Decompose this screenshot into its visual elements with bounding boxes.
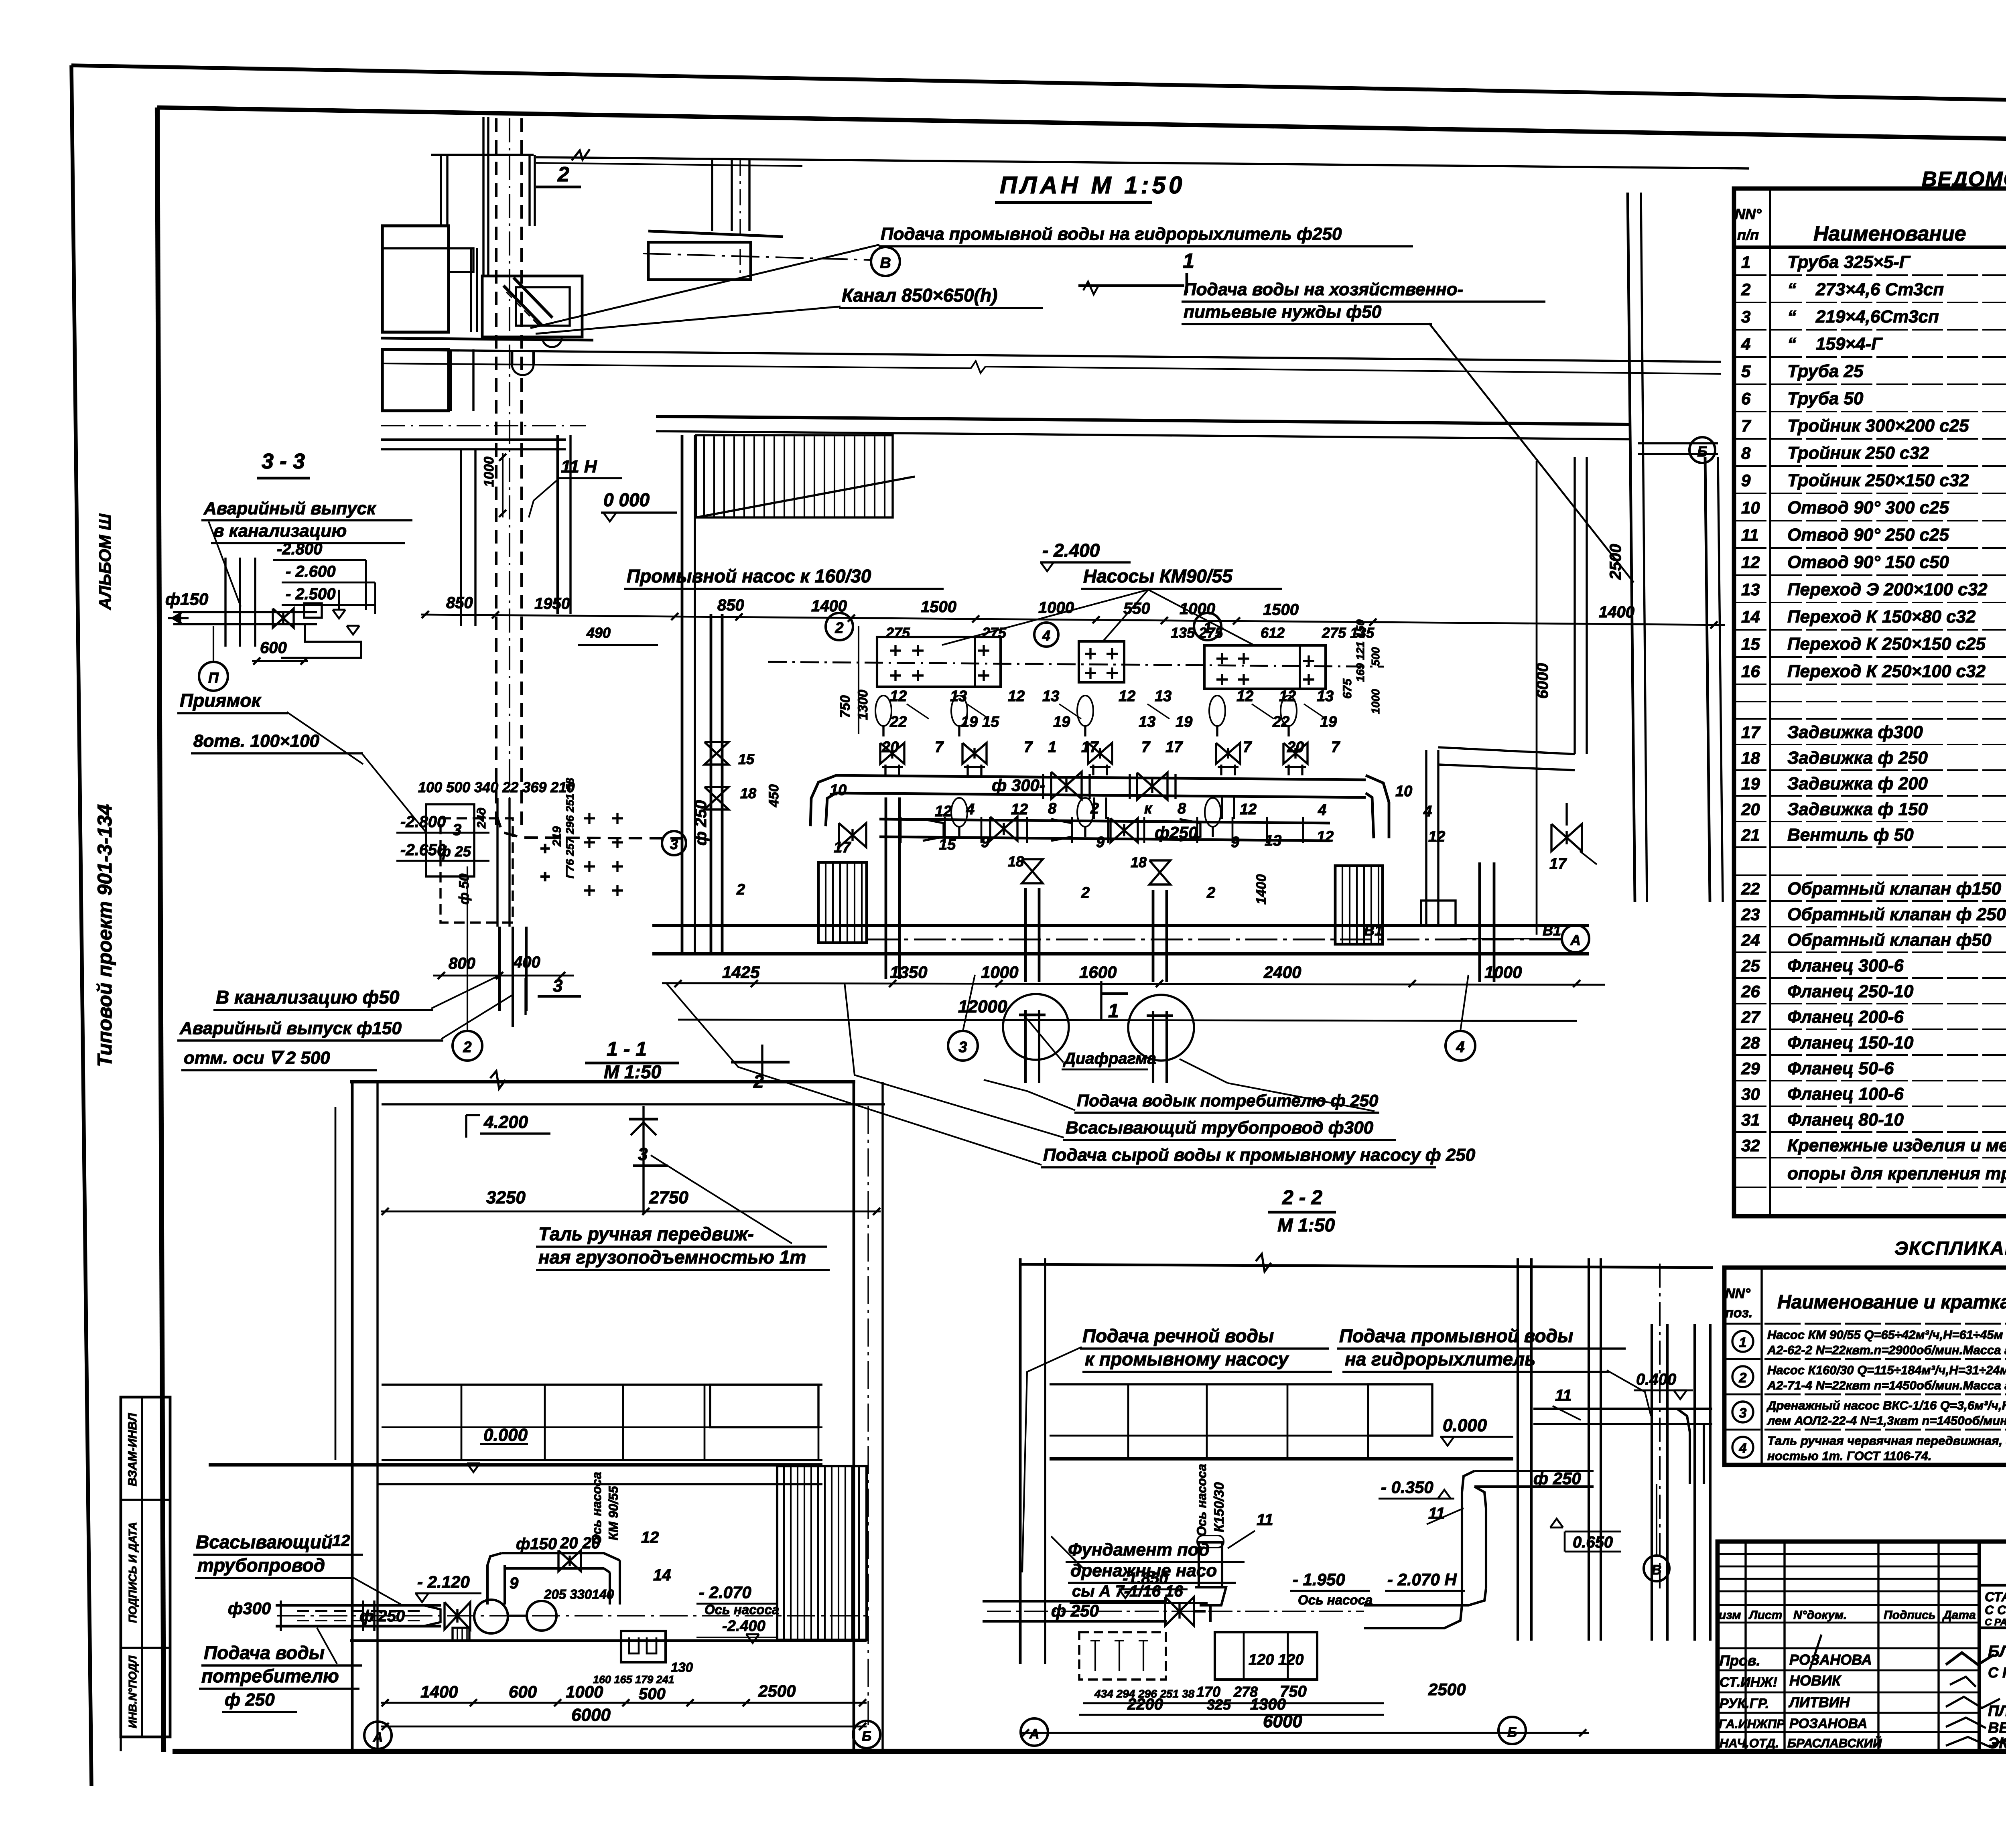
grid circle Б sec11 [853, 1721, 880, 1748]
leader промывной sec22 [1607, 1370, 1651, 1416]
svg-text:АЛЬБОМ Ш: АЛЬБОМ Ш [95, 513, 114, 610]
svg-text:Фланец 150-10: Фланец 150-10 [1787, 1033, 1914, 1053]
grid circle А plan [1562, 925, 1589, 952]
svg-text:1 - 1: 1 - 1 [607, 1038, 647, 1060]
svg-text:п/п: п/п [1737, 227, 1759, 243]
svg-text:Наименование и краткая характе: Наименование и краткая характеристика [1777, 1292, 2006, 1313]
check valves lower pipe [951, 798, 967, 827]
svg-text:ф 50: ф 50 [457, 874, 472, 905]
svg-text:1: 1 [1048, 739, 1056, 756]
svg-text:1000: 1000 [1484, 963, 1522, 982]
svg-text:12000: 12000 [958, 997, 1007, 1016]
svg-text:9: 9 [1231, 834, 1239, 851]
svg-text:Таль ручная передвиж-: Таль ручная передвиж- [538, 1223, 754, 1244]
gate valve on header 2 [1137, 773, 1167, 800]
axis dash-dot left lower [381, 425, 586, 426]
leader wires pump labels [942, 590, 1148, 645]
svg-text:100 500 340 22 369 210: 100 500 340 22 369 210 [418, 779, 575, 795]
svg-text:6000: 6000 [571, 1705, 611, 1725]
svg-text:2: 2 [1741, 280, 1750, 299]
svg-text:19: 19 [961, 714, 978, 730]
svg-text:12: 12 [1011, 801, 1028, 818]
wall: vertical stub v1 [440, 155, 442, 226]
svg-text:2: 2 [1206, 884, 1215, 901]
svg-text:К150/30: К150/30 [1212, 1482, 1227, 1532]
svg-text:Переход К 150×80 с32: Переход К 150×80 с32 [1787, 607, 1976, 627]
wire: left suction pipe vertical [885, 797, 887, 979]
svg-text:отм. оси ∇ 2 500: отм. оси ∇ 2 500 [184, 1048, 330, 1068]
svg-text:Подача речной воды: Подача речной воды [1082, 1325, 1274, 1346]
svg-text:3: 3 [670, 836, 678, 852]
wall: vertical stub v2 [482, 117, 484, 277]
svg-text:Подача водык потребителю ф 250: Подача водык потребителю ф 250 [1077, 1091, 1378, 1110]
wall: top building wall left part [431, 154, 534, 156]
foundation block sec22 [1215, 1632, 1317, 1680]
svg-text:Промывной насос к 160/30: Промывной насос к 160/30 [627, 566, 871, 586]
svg-text:Обратный клапан ф150: Обратный клапан ф150 [1787, 879, 2001, 899]
grid circle А sec22 [1021, 1718, 1048, 1746]
svg-text:Подача сырой воды к промывному: Подача сырой воды к промывному насосу ф … [1043, 1145, 1476, 1165]
wire: suction pipe 2 vertical [1024, 888, 1027, 982]
svg-text:С НАСОСНОЙ СТАНЦИЕЙ II ПОДЪЕМА: С НАСОСНОЙ СТАНЦИЕЙ II ПОДЪЕМА [1988, 1664, 2006, 1681]
svg-text:Аварийный выпуск ф150: Аварийный выпуск ф150 [179, 1018, 402, 1038]
svg-text:БЛОК СЛУЖЕБНЫХ ПОМЕЩЕНИЙ: БЛОК СЛУЖЕБНЫХ ПОМЕЩЕНИЙ [1988, 1641, 2006, 1660]
section 2-2 roof [1020, 1264, 1713, 1268]
leader фундамент [1051, 1536, 1083, 1568]
svg-text:Таль ручная червячная передвиж: Таль ручная червячная передвижная, грузо… [1767, 1434, 2006, 1448]
svg-text:1: 1 [1108, 1000, 1119, 1022]
grid circle Б sec22 [1498, 1717, 1526, 1744]
svg-text:Крепежные изделия и метизы: Крепежные изделия и метизы [1787, 1136, 2006, 1155]
outer sheet frame left edge [71, 65, 91, 1786]
wall: lower-left block [382, 349, 449, 411]
svg-text:11: 11 [1741, 525, 1759, 544]
svg-text:2: 2 [1081, 884, 1090, 901]
svg-text:Диафрагма: Диафрагма [1063, 1050, 1156, 1067]
left margin stamp strip [121, 1397, 170, 1751]
wall: right horizontal connector [1638, 442, 1718, 444]
svg-text:Канал 850×650(h): Канал 850×650(h) [842, 285, 997, 306]
svg-text:-2.400: -2.400 [722, 1618, 765, 1635]
wall: section 1-1 right wall [853, 1082, 855, 1751]
svg-text:1000: 1000 [1180, 600, 1215, 618]
svg-text:5: 5 [1741, 362, 1751, 381]
svg-text:потребителю: потребителю [201, 1665, 339, 1686]
svg-text:800: 800 [449, 955, 475, 972]
pump axis dash-dot sec11 [277, 1615, 867, 1616]
title block outer [1718, 1542, 2006, 1751]
svg-text:Труба 25: Труба 25 [1787, 361, 1864, 381]
svg-text:7: 7 [1741, 416, 1751, 435]
svg-text:275: 275 [982, 625, 1007, 641]
svg-text:Насос К160/30 Q=115÷184м³/ч,Н=: Насос К160/30 Q=115÷184м³/ч,Н=31÷24м с э… [1767, 1363, 2006, 1377]
pump axis dash sec22 [987, 1611, 1364, 1612]
svg-text:4.200: 4.200 [483, 1112, 528, 1132]
svg-text:8: 8 [1741, 444, 1751, 463]
svg-text:“ 273×4,6 Ст3сп: “ 273×4,6 Ст3сп [1787, 280, 1944, 299]
svg-text:29: 29 [1741, 1059, 1760, 1078]
leader wire аварийный [441, 995, 513, 1039]
wire: big elbow pipe ф250 sec22 [1474, 1470, 1594, 1472]
svg-text:275 135: 275 135 [1322, 625, 1375, 641]
svg-text:Пров.: Пров. [1720, 1652, 1760, 1669]
header left elbow down [810, 775, 836, 826]
svg-text:18: 18 [1008, 853, 1024, 870]
leader речной воды [1022, 1347, 1082, 1572]
svg-text:“ 159×4-Г: “ 159×4-Г [1787, 334, 1883, 354]
svg-text:13: 13 [1155, 688, 1172, 705]
materials table rows 17-21 [1741, 722, 2006, 845]
beam band section 1-1 [382, 1385, 822, 1460]
svg-text:NN°: NN° [1735, 206, 1762, 222]
gate valve symbols far ends [839, 823, 866, 847]
pipe U-stub under chamber [512, 364, 534, 375]
wire: pipe section 3-3 [173, 611, 317, 613]
svg-text:поз.: поз. [1725, 1305, 1752, 1321]
svg-text:11: 11 [1555, 1387, 1572, 1404]
gate valves row on risers [880, 743, 904, 764]
inner drawing frame top edge [157, 108, 2006, 146]
svg-text:13: 13 [1042, 688, 1059, 705]
svg-text:3: 3 [1739, 1406, 1747, 1421]
svg-text:Фланец 80-10: Фланец 80-10 [1787, 1110, 1904, 1130]
svg-text:11 Н: 11 Н [561, 457, 597, 477]
svg-text:0.000: 0.000 [483, 1425, 528, 1445]
svg-text:NN°: NN° [1725, 1286, 1750, 1301]
svg-text:ВЕДОМОСТЬ МАТЕРИАЛОВ.: ВЕДОМОСТЬ МАТЕРИАЛОВ. [1988, 1720, 2006, 1736]
svg-text:Обратный клапан ф 250: Обратный клапан ф 250 [1787, 905, 2006, 924]
svg-text:ф150: ф150 [516, 1535, 557, 1553]
leader всасывающий [351, 1576, 401, 1605]
svg-text:12: 12 [1240, 801, 1257, 818]
grid circle В [871, 247, 900, 276]
svg-text:3: 3 [553, 976, 562, 996]
svg-text:ЭКСПЛИКАЦИЯ ОБОРУДОВАНИЯ.: ЭКСПЛИКАЦИЯ ОБОРУДОВАНИЯ. [1988, 1735, 2006, 1752]
svg-text:1400: 1400 [811, 597, 847, 615]
wall: washing room wall stub [556, 435, 559, 614]
big gate valve left hatched [818, 862, 867, 943]
svg-text:9: 9 [1096, 834, 1105, 851]
svg-text:ПЛАН М 1:50: ПЛАН М 1:50 [1000, 172, 1185, 199]
svg-text:+: + [540, 867, 550, 886]
svg-text:питьевые нужды ф50: питьевые нужды ф50 [1184, 302, 1382, 322]
svg-text:СТ.ИНЖ!: СТ.ИНЖ! [1720, 1675, 1777, 1690]
svg-text:Фланец 100-6: Фланец 100-6 [1787, 1084, 1904, 1104]
svg-text:“ 219×4,6Ст3сп: “ 219×4,6Ст3сп [1787, 307, 1939, 327]
canal dashed line right [520, 118, 523, 826]
svg-text:ф 300-: ф 300- [992, 776, 1045, 795]
valve sec33 [273, 609, 294, 628]
svg-text:Приямок: Приямок [180, 690, 262, 711]
svg-text:0 000: 0 000 [603, 489, 650, 510]
inner drawing frame left edge [157, 108, 164, 1752]
gate valve on header 1 [1051, 772, 1082, 799]
svg-text:Б: Б [1507, 1725, 1517, 1740]
dim lines sec22 [1083, 1702, 1384, 1704]
svg-text:В1: В1 [1364, 922, 1383, 939]
svg-text:4: 4 [1042, 627, 1050, 644]
svg-text:2: 2 [834, 620, 843, 637]
svg-text:Тройник 250 с32: Тройник 250 с32 [1787, 443, 1929, 463]
svg-text:750: 750 [838, 695, 853, 718]
svg-text:к: к [1144, 800, 1153, 817]
svg-text:- 2.070 Н: - 2.070 Н [1387, 1570, 1457, 1589]
svg-text:1950: 1950 [534, 595, 570, 613]
svg-text:Задвижка ф 200: Задвижка ф 200 [1787, 774, 1928, 793]
discharge elbow down sec11 [604, 1553, 620, 1560]
leader wire from drinking water label [1429, 323, 1634, 582]
svg-text:Всасывающий: Всасывающий [196, 1532, 333, 1552]
leader wires from bottom labels [984, 1080, 1075, 1110]
axis circle П [199, 662, 228, 691]
dim chain top of hall [421, 594, 1725, 629]
canal dashed line left [495, 118, 497, 826]
svg-text:19: 19 [1176, 714, 1192, 730]
svg-text:Лист: Лист [1748, 1609, 1782, 1622]
svg-text:Фланец 200-6: Фланец 200-6 [1787, 1007, 1904, 1027]
svg-text:ПОДПИСЬ И ДАТА: ПОДПИСЬ И ДАТА [126, 1522, 139, 1623]
svg-text:8: 8 [1048, 800, 1057, 817]
svg-text:1000: 1000 [1038, 599, 1074, 617]
svg-text:Подача воды на хозяйственно-: Подача воды на хозяйственно- [1184, 280, 1463, 299]
svg-text:1: 1 [1183, 250, 1194, 273]
axis leader wires to grid circles [467, 866, 468, 1031]
svg-text:Г76 257 296 251 58: Г76 257 296 251 58 [564, 778, 576, 878]
svg-text:Б: Б [862, 1729, 871, 1744]
svg-text:РУК.ГР.: РУК.ГР. [1720, 1696, 1769, 1711]
floor slab sec11 [209, 1463, 822, 1467]
wall crossing pipe sec33 [224, 558, 226, 647]
title block left columns [1718, 1542, 1979, 1751]
svg-text:Труба 325×5-Г: Труба 325×5-Г [1787, 252, 1911, 272]
svg-text:12: 12 [1428, 828, 1445, 845]
svg-text:Подпись: Подпись [1884, 1609, 1936, 1622]
svg-text:А: А [373, 1730, 383, 1745]
wall: hall bottom wall band [652, 924, 1589, 927]
svg-text:0.000: 0.000 [1443, 1416, 1487, 1435]
drop arrows sec33 [333, 610, 345, 619]
svg-text:550: 550 [1123, 600, 1150, 617]
leader подача воды [317, 1628, 337, 1664]
svg-text:ИНВ.N°ПОДЛ: ИНВ.N°ПОДЛ [126, 1655, 139, 1728]
svg-text:9: 9 [510, 1574, 519, 1592]
svg-text:1000: 1000 [566, 1682, 603, 1701]
svg-text:Б: Б [1697, 443, 1708, 460]
svg-text:14: 14 [1741, 607, 1760, 626]
svg-text:13: 13 [1139, 714, 1155, 730]
svg-text:0.650: 0.650 [1573, 1534, 1613, 1551]
svg-text:- 2.120: - 2.120 [417, 1572, 470, 1591]
svg-text:13: 13 [1265, 832, 1281, 849]
svg-text:18: 18 [740, 785, 756, 801]
svg-text:трубопровод: трубопровод [197, 1555, 325, 1576]
grid circle 3 [948, 1031, 978, 1061]
crane trolley symbol [629, 1106, 658, 1214]
svg-text:М 1:50: М 1:50 [604, 1061, 662, 1082]
svg-text:13: 13 [1317, 688, 1334, 705]
svg-text:12: 12 [1317, 828, 1334, 845]
wall: right shaft verticals [1517, 1258, 1519, 1641]
svg-text:31: 31 [1741, 1110, 1760, 1129]
svg-text:850: 850 [717, 596, 744, 614]
grid circle А sec11 [364, 1722, 392, 1749]
wall: right horizontal interior pair [1438, 747, 1575, 754]
svg-text:8: 8 [1178, 800, 1186, 817]
svg-text:+: + [540, 839, 550, 858]
svg-text:14: 14 [653, 1566, 671, 1584]
svg-text:135 275: 135 275 [1171, 625, 1223, 641]
outer sheet frame top edge [71, 65, 2006, 108]
svg-text:1: 1 [1741, 253, 1750, 272]
svg-text:2750: 2750 [649, 1188, 688, 1207]
svg-text:10: 10 [1741, 498, 1760, 517]
svg-text:13: 13 [1741, 580, 1760, 599]
foundation dashed left sec22 [1079, 1632, 1166, 1680]
svg-text:ф300: ф300 [228, 1599, 271, 1618]
svg-text:Задвижка ф300: Задвижка ф300 [1787, 722, 1923, 742]
svg-text:- 2.500: - 2.500 [286, 585, 336, 603]
arc at diagonal pipe end [542, 336, 562, 347]
section 1-1 roof slab [350, 1080, 855, 1083]
svg-text:ЭКСПЛИКАЦИЯ: ЭКСПЛИКАЦИЯ [1894, 1237, 2006, 1259]
riser pipe sec11 [486, 1565, 489, 1605]
svg-text:15: 15 [1741, 635, 1760, 653]
wire: suction pipe external sec11 [276, 1604, 441, 1607]
leader wire 8отв [361, 753, 426, 832]
leader wire to valve [209, 521, 241, 607]
wire: shaft pipe horizontal [1533, 1408, 1712, 1410]
svg-text:17: 17 [1549, 856, 1567, 872]
wall: right corridor vertical pair [1628, 193, 1635, 902]
svg-text:Тройник 300×200 с25: Тройник 300×200 с25 [1787, 416, 1969, 436]
wire: suction pipes through diaphragms [1024, 1010, 1027, 1083]
wall: central column stack [470, 248, 472, 332]
svg-text:24: 24 [1741, 931, 1760, 949]
svg-text:А2-71-4 N=22квт n=1450об/мин.М: А2-71-4 N=22квт n=1450об/мин.Масса агрег… [1767, 1378, 2006, 1392]
svg-text:21: 21 [1741, 826, 1760, 844]
leader wire приямок [287, 712, 363, 764]
svg-text:2500: 2500 [758, 1682, 796, 1700]
grid circle В sec22 [1644, 1556, 1669, 1581]
canal axis dash-dot [509, 118, 510, 842]
svg-text:ПЛАН. РАЗРЕЗЫ. 1-1, 2-2.: ПЛАН. РАЗРЕЗЫ. 1-1, 2-2. [1988, 1703, 2006, 1720]
svg-text:Подача воды: Подача воды [204, 1642, 325, 1663]
svg-text:3: 3 [958, 1039, 967, 1056]
svg-text:7: 7 [1243, 739, 1252, 756]
svg-text:лем АОЛ2-22-4 N=1,3квт n=1450о: лем АОЛ2-22-4 N=1,3квт n=1450об/мин.Масс… [1766, 1414, 2006, 1428]
svg-text:СТАНЦИЯ ОЧИСТКИ ВОДЫ ПОВЕРХНОС: СТАНЦИЯ ОЧИСТКИ ВОДЫ ПОВЕРХНОСТНЫХ ИСТОЧ… [1985, 1589, 2006, 1604]
svg-text:20: 20 [1741, 800, 1760, 819]
wall: section 1-1 left wall [351, 1082, 354, 1751]
wall: chimney verticals right group [711, 160, 713, 231]
svg-text:120 120: 120 120 [1249, 1651, 1303, 1668]
window band sec22 [1050, 1384, 1513, 1459]
svg-text:Всасывающий трубопровод ф300: Всасывающий трубопровод ф300 [1066, 1118, 1374, 1138]
svg-text:Тройник 250×150 с32: Тройник 250×150 с32 [1787, 471, 1969, 490]
materials table grid [1734, 189, 2006, 1216]
svg-text:3: 3 [1741, 307, 1750, 326]
grid circle 4 [1446, 1031, 1475, 1061]
svg-text:6: 6 [1741, 389, 1751, 408]
big gate valve right hatched [1335, 866, 1383, 944]
foundation block right sec11 [621, 1631, 666, 1662]
svg-text:2: 2 [463, 1039, 471, 1056]
wire: header pipe ф300 [836, 775, 1366, 780]
svg-text:490: 490 [586, 625, 611, 641]
vertical pipe washing pump ф250 [710, 614, 713, 954]
svg-text:в канализацию: в канализацию [213, 521, 347, 541]
svg-text:на гидрорыхлитель: на гидрорыхлитель [1345, 1349, 1535, 1369]
priyamok cluster rects [426, 798, 623, 927]
svg-text:- 2.070: - 2.070 [699, 1583, 751, 1602]
svg-text:N°докум.: N°докум. [1793, 1609, 1847, 1622]
wire: suction pipe 3 vertical [1152, 890, 1155, 982]
svg-text:П: П [208, 669, 219, 686]
svg-text:- 0.350: - 0.350 [1381, 1478, 1433, 1497]
svg-text:- 2.600: - 2.600 [286, 563, 336, 580]
wire: B1 pipe line [867, 939, 1561, 941]
svg-text:130: 130 [671, 1660, 693, 1675]
svg-text:500: 500 [1369, 647, 1382, 666]
pump foundation block 1 [877, 637, 1001, 687]
stairs hatch block [696, 435, 915, 517]
svg-text:850: 850 [446, 594, 473, 612]
svg-text:Ось насоса: Ось насоса [1194, 1464, 1209, 1536]
svg-text:1350: 1350 [890, 963, 927, 982]
callout circle 4 [1034, 623, 1058, 647]
wall: canal chamber inner rect [516, 287, 570, 326]
roof break mark [490, 1071, 506, 1089]
svg-text:600: 600 [509, 1682, 537, 1701]
svg-text:7: 7 [1331, 739, 1340, 756]
svg-text:12: 12 [1008, 688, 1025, 705]
svg-text:2: 2 [1739, 1370, 1747, 1385]
wall: far right wall pair [1705, 457, 1710, 902]
svg-text:3: 3 [638, 1144, 648, 1164]
wall: vertical pair below [460, 449, 462, 626]
svg-text:КМ 90/55: КМ 90/55 [606, 1486, 621, 1541]
svg-text:А2-62-2 N=22квт.n=2900об/мин.М: А2-62-2 N=22квт.n=2900об/мин.Масса агрег… [1767, 1343, 2006, 1357]
svg-text:4: 4 [1318, 802, 1326, 819]
svg-text:ГА.ИНЖПР: ГА.ИНЖПР [1719, 1717, 1785, 1731]
svg-text:1425: 1425 [722, 963, 760, 982]
svg-text:7: 7 [1024, 739, 1033, 756]
svg-text:7: 7 [1141, 739, 1151, 756]
callout circle 1 pumps [1194, 613, 1221, 640]
wire: right suction pipe vertical [1478, 862, 1481, 982]
diaphragm circle right [1128, 995, 1194, 1061]
pump circles sec11 [474, 1600, 508, 1633]
svg-text:25: 25 [1741, 956, 1760, 975]
svg-text:3 - 3: 3 - 3 [262, 449, 305, 473]
wire: diagonal pipe in chamber [504, 286, 542, 326]
svg-text:Отвод 90° 150 с50: Отвод 90° 150 с50 [1787, 552, 1949, 572]
wall: sec22 left wall [1019, 1258, 1022, 1664]
svg-text:Труба 50: Труба 50 [1787, 389, 1864, 408]
svg-text:БРАСЛАВСКИЙ: БРАСЛАВСКИЙ [1787, 1736, 1882, 1750]
small box sec33 [304, 603, 322, 618]
callout circle 3 priyamok [662, 831, 686, 855]
grid circle 2 [453, 1031, 482, 1061]
svg-text:Переход К 250×100 с32: Переход К 250×100 с32 [1787, 661, 1986, 681]
axis long corridor with breaks [381, 363, 971, 368]
wire: left pipe sec22 [983, 1600, 1167, 1603]
svg-text:-1.850: -1.850 [1123, 1570, 1168, 1587]
svg-text:1500: 1500 [1263, 601, 1299, 619]
check valve capsules row [875, 696, 891, 726]
dim chain bottom of hall [662, 963, 1605, 987]
svg-text:0.400: 0.400 [1636, 1371, 1676, 1388]
